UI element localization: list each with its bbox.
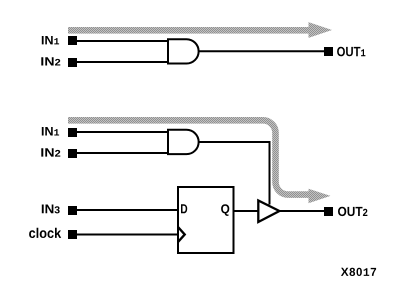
OUT2 terminal square: [324, 207, 333, 216]
gray flow arrow (top), arrowhead: [309, 22, 333, 38]
OUT1 label: [337, 47, 365, 57]
AND gate U1: [168, 39, 199, 63]
IN2 terminal square (bottom section): [68, 149, 77, 158]
wire clock to flip-flop clock input: [77, 234, 178, 236]
wire IN1 to AND gate U2: [77, 131, 168, 133]
clock terminal square: [68, 230, 77, 239]
IN1 label (bottom section): [42, 127, 59, 136]
wire IN2 to AND gate U2: [77, 152, 168, 154]
figure number X8017: [341, 268, 376, 276]
wire buffer output to OUT2: [279, 210, 324, 212]
Q pin label: [221, 204, 229, 216]
IN1 terminal square (top section): [68, 36, 77, 45]
IN2 terminal square (top section): [68, 58, 77, 67]
D flip-flop U3 body: [178, 187, 234, 253]
IN1 terminal square (bottom section): [68, 128, 77, 137]
OUT1 terminal square: [324, 47, 333, 56]
wire IN1 to AND gate U1: [77, 40, 168, 42]
D pin label: [181, 204, 187, 213]
IN1 label (top section): [42, 36, 59, 44]
IN3 label: [42, 205, 60, 214]
gray flow arrow (top), body: [68, 27, 309, 34]
wire U1 output to OUT1: [198, 50, 324, 52]
AND gate U2: [168, 130, 199, 154]
OUT2 label: [338, 207, 367, 216]
IN2 label (top section): [41, 57, 60, 65]
3-state buffer U4: [258, 201, 279, 223]
wire IN2 to AND gate U1: [77, 61, 168, 63]
wire IN3 to D input: [77, 209, 178, 211]
wire U2 output to 3-state buffer enable: [199, 142, 270, 205]
IN3 terminal square: [68, 206, 77, 215]
clock label: [29, 228, 61, 238]
clock edge wedge: [178, 227, 185, 242]
IN2 label (bottom section): [41, 148, 60, 156]
gray flow arrow (bottom), arrowhead: [309, 189, 331, 204]
wire Q output to buffer: [235, 210, 260, 212]
gray flow arrow (bottom), curved body: [68, 120, 309, 194]
